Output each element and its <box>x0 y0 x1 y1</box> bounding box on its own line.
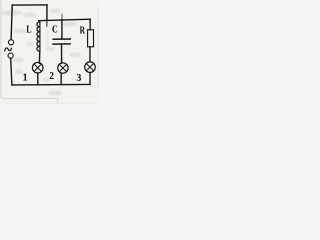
svg-text:3: 3 <box>76 73 81 84</box>
svg-text:C: C <box>52 24 58 35</box>
svg-text:1: 1 <box>23 73 28 84</box>
svg-text:L: L <box>26 25 32 36</box>
svg-text:R: R <box>80 26 86 37</box>
svg-text:2: 2 <box>49 71 54 82</box>
